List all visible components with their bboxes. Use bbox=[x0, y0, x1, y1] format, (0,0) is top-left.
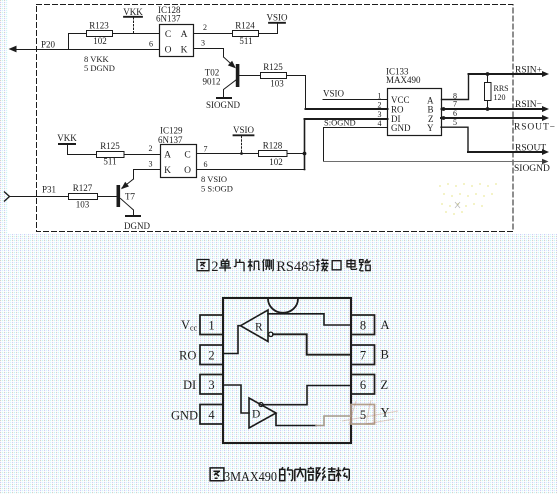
wire T7 collector to IC129 K bbox=[133, 170, 135, 180]
caption figure 3 : nei bbox=[295, 467, 306, 481]
DIP package body bbox=[223, 298, 351, 443]
pin box 5 (faded) bbox=[351, 405, 375, 425]
transistor T7 collector diagonal bbox=[122, 179, 134, 188]
caption figure 3 : gou bbox=[336, 467, 350, 481]
svg-text:102: 102 bbox=[269, 157, 283, 167]
transistor T7 emitter bbox=[121, 199, 134, 217]
caption figure 2 : jie bbox=[316, 259, 328, 272]
svg-text:4: 4 bbox=[208, 408, 215, 422]
pin box 1 bbox=[200, 315, 223, 335]
wire D out Y black part bbox=[276, 414, 316, 426]
resistor R124 bbox=[233, 31, 259, 37]
transistor T02 base bar bbox=[236, 64, 240, 87]
svg-text:511: 511 bbox=[239, 36, 252, 46]
svg-text:8 VSIO: 8 VSIO bbox=[201, 174, 227, 184]
wire IC129 O out bbox=[197, 169, 305, 171]
pin box 8 bbox=[351, 315, 375, 335]
svg-text:120: 120 bbox=[494, 93, 506, 102]
svg-text:K: K bbox=[181, 46, 188, 56]
power VKK2 bar bbox=[59, 143, 75, 145]
wire D out Y faded part bbox=[316, 416, 351, 426]
caption figure 2 : pian bbox=[234, 259, 244, 271]
svg-text:R125: R125 bbox=[100, 141, 120, 151]
svg-text:RSIN−: RSIN− bbox=[515, 100, 542, 110]
svg-text:7: 7 bbox=[204, 145, 208, 154]
dashed border box bbox=[37, 5, 514, 232]
svg-text:7: 7 bbox=[360, 349, 366, 363]
background texture left strip bbox=[0, 0, 8, 234]
svg-text:3MAX490: 3MAX490 bbox=[224, 470, 277, 485]
receiver inverting bubble bbox=[269, 332, 273, 336]
wire T02 base to R125 bbox=[240, 75, 261, 77]
wire VSIO2 drop dotted bbox=[241, 136, 243, 153]
svg-text:5: 5 bbox=[453, 118, 457, 127]
wire R output to pin 2 bbox=[223, 326, 241, 354]
wire DI vertical down bbox=[304, 119, 306, 170]
transistor T7 base bar bbox=[117, 185, 121, 207]
caption figure 2 : kou bbox=[332, 261, 341, 270]
optocoupler IC129 box bbox=[161, 145, 197, 178]
svg-text:VCC: VCC bbox=[391, 95, 410, 105]
svg-text:2: 2 bbox=[211, 259, 218, 275]
caption figure 3 : bu bbox=[307, 467, 320, 482]
IC133 MAX490 box bbox=[388, 89, 442, 136]
wire RO thick bbox=[306, 108, 388, 110]
wire RSOUT run thick bbox=[468, 151, 545, 153]
wire A net pin8 bbox=[442, 74, 469, 100]
svg-text:P31: P31 bbox=[42, 185, 56, 195]
svg-text:102: 102 bbox=[93, 36, 107, 46]
resistor RRS vertical bbox=[485, 83, 492, 101]
DIP notch bbox=[268, 299, 298, 313]
svg-text:P20: P20 bbox=[41, 40, 56, 50]
wire P31 net bbox=[10, 196, 69, 198]
driver inverting bubble bbox=[259, 403, 263, 407]
arrow Z net bbox=[542, 115, 549, 121]
resistor R126 bbox=[97, 152, 125, 158]
svg-text:511: 511 bbox=[103, 157, 116, 167]
power VSIO bar bbox=[269, 22, 285, 24]
transistor T02 collector bbox=[224, 80, 237, 98]
junction dot VSIO2 bbox=[240, 152, 243, 155]
receiver R triangle bbox=[241, 310, 269, 342]
wire DI input to D bbox=[223, 385, 249, 413]
wire IC129 C out bbox=[197, 153, 259, 155]
caption figure 3 : jie2 bbox=[322, 467, 336, 481]
svg-text:C: C bbox=[165, 30, 171, 40]
wire VSIO label to VCC pin1 bbox=[323, 99, 388, 101]
svg-text:O: O bbox=[165, 46, 172, 56]
caption figure 3 : de bbox=[280, 467, 293, 481]
wire R128 to DI vertical bbox=[287, 153, 305, 155]
ground SIOGND bar under T02 bbox=[217, 97, 231, 99]
svg-text:2: 2 bbox=[149, 144, 153, 153]
svg-text:K: K bbox=[164, 166, 171, 176]
caption figure 2 : dan bbox=[219, 259, 231, 271]
wire R126 to IC129 pin A bbox=[125, 154, 161, 156]
svg-text:3: 3 bbox=[149, 160, 153, 169]
svg-text:RSOUT: RSOUT bbox=[515, 144, 546, 154]
svg-text:5 DGND: 5 DGND bbox=[84, 63, 115, 73]
pin box 3 bbox=[200, 375, 223, 395]
svg-text:5 S:OGD: 5 S:OGD bbox=[201, 184, 233, 194]
svg-text:R127: R127 bbox=[73, 183, 93, 193]
wire R127 to T7 base bbox=[98, 196, 117, 198]
svg-text:9012: 9012 bbox=[203, 77, 221, 87]
wire B input to R bubble bbox=[273, 334, 351, 354]
svg-text:7: 7 bbox=[453, 100, 457, 109]
caption figure 2 : ce bbox=[262, 259, 273, 271]
svg-text:VKK: VKK bbox=[123, 7, 143, 17]
svg-text:103: 103 bbox=[270, 79, 284, 89]
wire D out Z to pin 6 bbox=[263, 386, 351, 405]
svg-text:6N137: 6N137 bbox=[158, 135, 183, 145]
wire RRS bottom bbox=[487, 101, 489, 110]
junction dot Z at box bbox=[442, 116, 446, 120]
resistor R123 bbox=[87, 31, 113, 37]
svg-text:6: 6 bbox=[453, 109, 457, 118]
caption figure 2 : ji bbox=[248, 259, 260, 271]
wire A input to R bbox=[268, 314, 351, 325]
pin box 2 bbox=[200, 345, 223, 365]
arrow RSIN- bbox=[542, 106, 549, 112]
wire RRS top bbox=[487, 74, 489, 82]
junction dot B at box bbox=[442, 107, 446, 111]
wire Z net thick bbox=[441, 117, 545, 119]
ground DGND bar bbox=[126, 215, 140, 217]
svg-text:VSIO: VSIO bbox=[233, 125, 255, 135]
junction dot RRS bottom bbox=[486, 107, 490, 111]
svg-text:T7: T7 bbox=[125, 192, 135, 202]
svg-text:RSIN+: RSIN+ bbox=[515, 66, 542, 76]
svg-text:6: 6 bbox=[149, 40, 153, 49]
power VKK rail bar bbox=[124, 16, 142, 18]
optocoupler IC128 box bbox=[160, 25, 194, 57]
svg-text:B: B bbox=[427, 105, 433, 115]
caption figure 2 : tu bbox=[197, 260, 209, 271]
svg-text:2: 2 bbox=[378, 101, 382, 110]
svg-text:6: 6 bbox=[204, 160, 208, 169]
svg-text:A: A bbox=[181, 30, 188, 40]
svg-text:VSIO: VSIO bbox=[266, 13, 288, 23]
svg-text:103: 103 bbox=[76, 200, 90, 210]
wire IC129 pin K bbox=[134, 169, 161, 171]
svg-text:SIOGND: SIOGND bbox=[514, 164, 550, 174]
wire RSIN+ run thick bbox=[469, 73, 546, 75]
svg-text:Z: Z bbox=[381, 378, 389, 392]
svg-text:RO: RO bbox=[179, 349, 196, 363]
svg-text:2: 2 bbox=[203, 23, 207, 32]
svg-text:1: 1 bbox=[378, 92, 382, 101]
junction dot RRS top bbox=[486, 72, 490, 76]
resistor R125 bbox=[261, 73, 287, 79]
svg-text:8: 8 bbox=[360, 319, 366, 333]
svg-text:R124: R124 bbox=[235, 21, 255, 31]
power VSIO2 bar bbox=[234, 134, 254, 136]
svg-text:S:OGND: S:OGND bbox=[324, 118, 356, 128]
transistor T02 emitter arrow bbox=[228, 61, 236, 69]
pin box 4 bbox=[200, 405, 223, 425]
arrow RSOUT bbox=[542, 149, 549, 155]
faint scan artifact dots bbox=[439, 183, 497, 215]
svg-text:6N137: 6N137 bbox=[156, 14, 181, 24]
svg-text:R123: R123 bbox=[89, 21, 109, 31]
wire P20 net bbox=[16, 49, 160, 51]
svg-text:RRS: RRS bbox=[494, 84, 509, 93]
node P20 arrow bbox=[9, 46, 17, 53]
background texture lower half bbox=[0, 234, 557, 494]
svg-text:A: A bbox=[381, 318, 390, 332]
arrow P31 input chevron bbox=[5, 192, 10, 201]
transistor T02 emitter bbox=[224, 57, 235, 67]
wire branch to R123 bbox=[69, 34, 87, 50]
svg-text:SIOGND: SIOGND bbox=[206, 100, 241, 110]
svg-text:RO: RO bbox=[391, 105, 404, 115]
wire VKK2 drop bbox=[68, 144, 97, 155]
watermark red strokes bbox=[342, 400, 398, 425]
arrow SIOGND right bbox=[542, 159, 549, 165]
svg-text:C: C bbox=[184, 151, 190, 161]
caption figure 2 : lu bbox=[359, 259, 370, 271]
wire GND pin4 to SIOGND run bbox=[324, 128, 388, 162]
svg-text:A: A bbox=[164, 151, 171, 161]
svg-text:1: 1 bbox=[208, 319, 214, 333]
svg-text:R128: R128 bbox=[263, 141, 283, 151]
svg-text:GND: GND bbox=[391, 123, 411, 133]
caption figure 2 : dian bbox=[347, 259, 357, 270]
svg-text:2: 2 bbox=[208, 349, 214, 363]
arrow RSIN+ bbox=[542, 71, 549, 77]
svg-text:R125: R125 bbox=[263, 62, 283, 72]
svg-text:DI: DI bbox=[183, 378, 196, 392]
svg-text:O: O bbox=[184, 166, 191, 176]
wire R125 to MAX490 RO bbox=[287, 76, 306, 110]
svg-text:VSIO: VSIO bbox=[323, 89, 345, 99]
svg-text:RS485: RS485 bbox=[276, 259, 316, 275]
caption figure 3 : tu bbox=[210, 468, 224, 481]
svg-text:4: 4 bbox=[378, 119, 382, 128]
svg-text:B: B bbox=[381, 348, 389, 362]
resistor R127 bbox=[69, 194, 98, 200]
wire R124 to VSIO bbox=[259, 23, 278, 34]
wire IC128 K out bbox=[194, 49, 224, 58]
svg-text:6: 6 bbox=[360, 378, 366, 392]
wire DI thick bbox=[305, 118, 388, 120]
svg-text:Y: Y bbox=[427, 123, 434, 133]
transistor T7 collector arrow bbox=[121, 182, 129, 189]
svg-text:IC129: IC129 bbox=[160, 126, 183, 136]
svg-text:R: R bbox=[255, 322, 263, 334]
svg-text:3: 3 bbox=[208, 378, 214, 392]
driver D triangle bbox=[249, 398, 276, 428]
wire IC128 A out to R124 bbox=[194, 33, 233, 35]
svg-text:5: 5 bbox=[360, 408, 366, 422]
svg-text:3: 3 bbox=[378, 110, 382, 119]
svg-text:VKK: VKK bbox=[57, 133, 77, 143]
wire B net RSIN- thick bbox=[442, 108, 546, 110]
svg-text:MAX490: MAX490 bbox=[386, 75, 421, 85]
junction dot R128 net bbox=[303, 152, 307, 156]
wire VKK drop (dotted) bbox=[133, 18, 135, 34]
svg-text:RSOUT−: RSOUT− bbox=[514, 123, 556, 133]
pin box 6 bbox=[351, 375, 375, 395]
wire Y net pin5 bbox=[441, 127, 468, 152]
svg-text:D: D bbox=[252, 409, 260, 421]
svg-text:DGND: DGND bbox=[124, 221, 150, 231]
faint gray mark bbox=[455, 202, 460, 208]
svg-text:3: 3 bbox=[201, 39, 205, 48]
pin box 7 bbox=[351, 345, 375, 365]
wire R123 to IC128 pin C bbox=[113, 33, 160, 35]
svg-text:GND: GND bbox=[171, 409, 198, 423]
resistor R128 bbox=[259, 151, 288, 157]
